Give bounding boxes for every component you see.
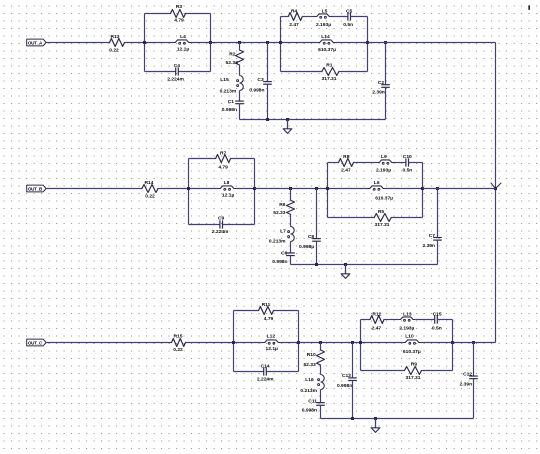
node junction (232, 341, 235, 344)
svg-text:L16: L16 (305, 377, 314, 383)
wire (211, 42, 281, 44)
svg-text:R2: R2 (229, 52, 236, 58)
resistor R12 (361, 319, 371, 321)
resistor R6 (290, 189, 292, 201)
svg-text:R11: R11 (262, 302, 271, 308)
wire (422, 163, 424, 218)
svg-text:317.31: 317.31 (375, 222, 390, 228)
svg-text:R14: R14 (145, 180, 154, 186)
svg-text:610.37µ: 610.37µ (375, 196, 393, 202)
svg-text:L7: L7 (280, 229, 286, 235)
resistor R14 (142, 185, 158, 193)
node junction (187, 187, 190, 190)
capacitor C7 (437, 189, 439, 238)
inductor L16 (320, 365, 322, 375)
wire (233, 311, 235, 372)
svg-text:52.33: 52.33 (226, 60, 239, 66)
svg-text:L12: L12 (267, 334, 276, 340)
svg-text:0.998n: 0.998n (337, 383, 352, 389)
capacitor C9 (189, 224, 220, 226)
svg-text:L8: L8 (224, 180, 230, 186)
svg-text:2.39n: 2.39n (460, 381, 473, 387)
svg-text:L15: L15 (220, 77, 229, 83)
svg-text:R15: R15 (174, 334, 183, 340)
node junction (359, 341, 362, 344)
wire (210, 14, 212, 72)
capacitor C11 (320, 390, 322, 403)
wire (299, 342, 361, 344)
svg-text:2.224m: 2.224m (167, 76, 184, 82)
svg-text:317.31: 317.31 (406, 375, 421, 381)
svg-text:0.998n: 0.998n (249, 88, 264, 94)
wire (452, 320, 454, 371)
svg-text:0.213m: 0.213m (269, 239, 286, 245)
svg-text:0.22: 0.22 (173, 347, 183, 353)
capacitor C2 (385, 43, 387, 85)
svg-text:2.47: 2.47 (372, 325, 382, 331)
wire (158, 188, 189, 190)
svg-text:L13: L13 (403, 312, 412, 318)
ground (287, 120, 289, 129)
resistor R5 (328, 217, 375, 219)
svg-text:0.213m: 0.213m (220, 89, 237, 95)
node junction (326, 187, 329, 190)
resistor R8 (328, 162, 339, 164)
svg-text:OUT_B: OUT_B (28, 186, 43, 191)
svg-text:2.39n: 2.39n (422, 243, 435, 249)
svg-text:C2: C2 (378, 80, 385, 86)
port OUT_C (27, 339, 46, 346)
wire (423, 188, 496, 190)
tick mark (528, 5, 530, 10)
svg-text:L5: L5 (322, 8, 328, 14)
port OUT_B (27, 185, 46, 192)
svg-text:0.22: 0.22 (145, 194, 155, 200)
svg-text:C11: C11 (308, 398, 317, 404)
resistor R7 (189, 158, 216, 160)
wire (360, 320, 362, 371)
svg-text:0.998n: 0.998n (272, 259, 287, 265)
wire (320, 405, 322, 418)
wire (239, 104, 241, 120)
svg-text:12.1µ: 12.1µ (177, 46, 190, 52)
resistor R9 (361, 370, 405, 372)
svg-text:C13: C13 (342, 373, 351, 379)
resistor R2 (239, 43, 241, 50)
capacitor C6 (290, 242, 292, 253)
svg-text:4.79: 4.79 (218, 164, 228, 170)
node junction (279, 41, 282, 44)
wire (255, 188, 328, 190)
inductor L10 (361, 342, 404, 344)
svg-text:R9: R9 (411, 362, 418, 368)
svg-text:12.1µ: 12.1µ (222, 193, 235, 199)
svg-text:R12: R12 (372, 312, 381, 318)
inductor L9 (354, 162, 378, 164)
wire (125, 42, 145, 44)
svg-text:R5: R5 (378, 209, 385, 215)
svg-text:R6: R6 (279, 202, 286, 208)
svg-text:C9: C9 (218, 216, 225, 222)
svg-text:OUT_C: OUT_C (28, 340, 43, 345)
svg-text:610.37µ: 610.37µ (318, 47, 336, 53)
wire (188, 159, 190, 225)
capacitor C15 (415, 319, 434, 321)
svg-text:L4: L4 (180, 34, 186, 40)
svg-text:R4: R4 (291, 8, 298, 14)
resistor R15 (172, 339, 186, 347)
svg-text:2.224m: 2.224m (212, 229, 229, 235)
svg-text:C6: C6 (281, 251, 288, 257)
svg-text:R7: R7 (220, 151, 227, 157)
inductor L5 (302, 16, 314, 18)
inductor L13 (384, 319, 398, 321)
resistor R13 (110, 39, 125, 47)
svg-text:C1: C1 (228, 99, 235, 105)
svg-text:0.5n: 0.5n (432, 325, 442, 331)
svg-text:317.31: 317.31 (322, 76, 337, 82)
resistor R4 (281, 16, 289, 18)
port OUT_A (27, 39, 46, 46)
svg-text:2.193µ: 2.193µ (316, 22, 331, 28)
svg-text:C14: C14 (261, 363, 270, 369)
capacitor C5 (332, 16, 348, 18)
wire (368, 42, 496, 44)
svg-text:2.224m: 2.224m (257, 377, 274, 383)
capacitor C4 (145, 71, 176, 73)
node junction (289, 187, 292, 190)
wire (46, 188, 142, 190)
svg-text:C5: C5 (346, 8, 353, 14)
node junction (143, 41, 146, 44)
wire (186, 342, 234, 344)
wire (46, 342, 171, 344)
svg-text:R1: R1 (326, 63, 333, 69)
resistor R3 (171, 10, 186, 18)
wire (367, 17, 369, 72)
svg-text:52.33: 52.33 (303, 362, 316, 368)
svg-text:R10: R10 (307, 352, 316, 358)
svg-text:C12: C12 (463, 371, 472, 377)
wire (437, 319, 452, 321)
svg-text:R3: R3 (176, 4, 183, 10)
wire (240, 119, 386, 121)
wire (321, 418, 474, 420)
svg-text:R8: R8 (343, 154, 350, 160)
capacitor C10 (394, 162, 406, 164)
svg-text:52.33: 52.33 (273, 210, 286, 216)
ground (375, 419, 377, 428)
node junction (266, 118, 269, 121)
capacitor C12 (473, 343, 475, 377)
inductor L8 (189, 188, 219, 190)
inductor L15 (239, 65, 241, 76)
svg-text:C7: C7 (429, 233, 436, 239)
svg-text:C15: C15 (433, 312, 442, 318)
resistor R10 (320, 343, 322, 351)
inductor L6 (328, 188, 368, 190)
svg-text:L14: L14 (321, 34, 330, 40)
wire (254, 159, 256, 225)
wire (437, 240, 439, 264)
capacitor C1 (239, 91, 241, 102)
svg-text:12.1µ: 12.1µ (266, 346, 279, 352)
svg-text:0.998µ: 0.998µ (299, 244, 314, 250)
svg-text:2.47: 2.47 (289, 22, 299, 28)
resistor R1 (281, 71, 322, 73)
capacitor C13 (352, 343, 354, 378)
wire (385, 87, 387, 119)
svg-text:L6: L6 (374, 180, 380, 186)
svg-text:L9: L9 (381, 154, 387, 160)
svg-text:0.998n: 0.998n (222, 107, 237, 113)
svg-text:C10: C10 (403, 154, 412, 160)
wire (298, 311, 300, 372)
wire (409, 162, 423, 164)
node junction (238, 41, 241, 44)
svg-text:2.193µ: 2.193µ (376, 167, 391, 173)
node junction (315, 263, 318, 266)
svg-text:R13: R13 (111, 34, 120, 40)
node junction (319, 341, 322, 344)
capacitor C14 (234, 371, 264, 373)
resistor R11 (234, 310, 259, 312)
svg-text:2.47: 2.47 (341, 167, 351, 173)
svg-text:4.79: 4.79 (264, 316, 274, 322)
wire (453, 342, 496, 344)
wire (327, 163, 329, 218)
svg-text:OUT_A: OUT_A (28, 40, 43, 45)
svg-text:2.39n: 2.39n (372, 90, 385, 96)
capacitor C8 (316, 189, 318, 239)
ground (345, 265, 347, 274)
wire arrow (491, 183, 502, 189)
svg-text:4.79: 4.79 (174, 18, 184, 24)
svg-text:L10: L10 (405, 334, 414, 340)
wire (495, 43, 497, 343)
inductor L7 (290, 214, 292, 226)
wire (316, 241, 318, 264)
svg-text:C4: C4 (174, 63, 181, 69)
inductor L14 (281, 42, 318, 44)
wire (352, 381, 354, 419)
wire (46, 42, 109, 44)
wire (144, 14, 146, 72)
node junction (351, 417, 354, 420)
wire (145, 13, 171, 15)
svg-text:C8: C8 (308, 234, 315, 240)
svg-text:610.37µ: 610.37µ (403, 349, 421, 355)
wire (351, 16, 368, 18)
inductor L4 (145, 42, 174, 44)
svg-text:0.213m: 0.213m (300, 388, 317, 394)
wire (473, 379, 475, 419)
inductor L12 (234, 342, 263, 344)
node junction (494, 187, 497, 190)
capacitor C3 (267, 43, 269, 82)
svg-text:0.22: 0.22 (109, 48, 119, 54)
svg-text:C3: C3 (257, 77, 264, 83)
wire (267, 84, 269, 119)
wire (280, 17, 282, 72)
svg-text:0.998n: 0.998n (302, 407, 317, 413)
svg-text:0.5n: 0.5n (343, 22, 353, 28)
wire (291, 264, 438, 266)
wire (290, 256, 292, 265)
svg-text:2.193µ: 2.193µ (399, 325, 414, 331)
svg-text:0.5n: 0.5n (403, 167, 413, 173)
